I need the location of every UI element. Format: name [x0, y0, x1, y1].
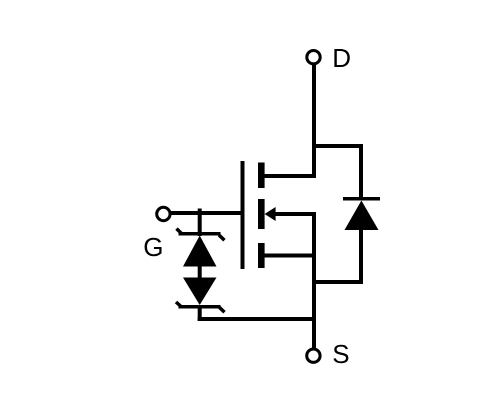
drain lead — [262, 174, 316, 178]
terminal D — [307, 51, 320, 64]
channel bar bottom — [258, 243, 265, 268]
wire body diode cathode vertical — [359, 144, 363, 200]
wire branch to body diode top — [312, 144, 361, 148]
wire body diode bottom horizontal — [314, 280, 363, 284]
MOSFET Q1 — [243, 161, 317, 269]
svg-text:D: D — [332, 43, 351, 73]
wire zener bottom horizontal — [198, 317, 314, 321]
source lead — [262, 254, 316, 258]
zener diode Z2 — [176, 278, 225, 313]
body arrow — [265, 207, 276, 221]
zener diode Z1 — [177, 229, 225, 267]
terminal S — [307, 349, 320, 362]
wire zener bottom vertical — [198, 305, 202, 321]
body lead — [273, 212, 316, 216]
terminal G — [157, 207, 170, 220]
svg-text:S: S — [332, 339, 349, 369]
channel bar middle — [258, 199, 265, 229]
wire zener top vertical — [198, 209, 202, 237]
wire between zeners — [198, 266, 202, 279]
wire gate horizontal — [171, 211, 245, 215]
wire drain vertical — [312, 65, 316, 179]
wire source vertical — [312, 212, 316, 349]
channel bar top — [258, 163, 265, 189]
body diode D1 — [343, 199, 380, 230]
wire body diode anode vertical — [359, 229, 363, 284]
gate line — [241, 161, 245, 269]
svg-text:G: G — [143, 232, 163, 262]
